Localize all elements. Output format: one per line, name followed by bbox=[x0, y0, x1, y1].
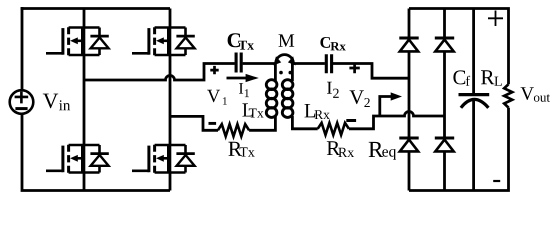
label LTx bbox=[242, 103, 263, 117]
inductor LRx bbox=[282, 80, 293, 118]
plus sign V2 bbox=[349, 63, 359, 73]
voltage source Vin bbox=[10, 7, 34, 114]
wire left leg lower segment bbox=[83, 173, 86, 191]
mutual coupling arc M bbox=[276, 55, 294, 63]
polarity dot LRx bbox=[289, 71, 293, 75]
wire right leg lower segment bbox=[169, 173, 172, 191]
label RRx bbox=[327, 141, 354, 157]
wire inverter top rail and left edge bbox=[22, 9, 170, 91]
diode D1 rectifier upper-left bbox=[399, 38, 418, 51]
plus sign V1 bbox=[210, 66, 218, 74]
transistor Q4 lower-right MOSFET with body diode bbox=[132, 145, 195, 173]
wire rectifier top rail and right edge upper bbox=[409, 9, 509, 85]
label I2 bbox=[327, 82, 339, 98]
wire right leg upper segment bbox=[169, 9, 172, 28]
label LRx bbox=[305, 104, 330, 119]
wire left leg middle segment bbox=[83, 55, 86, 145]
capacitor CRx bbox=[326, 54, 331, 73]
label Vout bbox=[521, 87, 550, 102]
label Cf bbox=[453, 70, 470, 85]
polarity dot LTx bbox=[279, 71, 283, 75]
label RL bbox=[481, 70, 502, 86]
mutual coupling arrowheads bbox=[273, 56, 295, 65]
minus sign V2 bbox=[346, 119, 356, 122]
wire rectifier right edge lower and bottom rail bbox=[409, 108, 509, 191]
wire LRx bottom to RRx bbox=[292, 116, 317, 129]
diode D2 rectifier upper-right bbox=[435, 38, 454, 51]
wire rectifier right diode leg bbox=[443, 9, 446, 191]
transistor Q1 upper-left MOSFET with body diode bbox=[46, 27, 109, 55]
minus sign output bbox=[493, 180, 500, 182]
wire Cf bottom lead bbox=[472, 101, 475, 191]
transistor Q2 upper-right MOSFET with body diode bbox=[132, 27, 195, 55]
resistor RRx bbox=[318, 123, 349, 135]
inductor LTx bbox=[266, 80, 277, 118]
resistor RL bbox=[504, 84, 512, 107]
label RTx bbox=[228, 142, 254, 157]
wire Cf top lead bbox=[472, 9, 475, 94]
wire bridge output lower to RTx bbox=[170, 116, 218, 130]
label Req bbox=[369, 142, 396, 160]
wire CRx to rectifier input bbox=[333, 64, 409, 79]
wire right leg middle segment bbox=[169, 55, 172, 145]
wire LRx top to CRx bbox=[292, 64, 325, 82]
label M bbox=[279, 34, 295, 46]
plus sign output bbox=[488, 11, 503, 27]
minus sign V1 bbox=[209, 122, 217, 125]
wire inverter left edge bottom and bottom rail bbox=[22, 114, 170, 191]
wire left leg upper segment bbox=[83, 9, 86, 28]
diode D3 rectifier lower-left bbox=[399, 138, 418, 151]
wire rectifier left diode leg bbox=[408, 9, 411, 191]
equivalent resistance arrow Req bbox=[380, 92, 402, 116]
label I1 bbox=[239, 83, 249, 97]
capacitor Cf bbox=[459, 95, 490, 108]
current arrow I1 bbox=[227, 74, 259, 82]
resistor RTx bbox=[218, 124, 249, 136]
diode D4 rectifier lower-right bbox=[435, 138, 454, 151]
label CRx bbox=[320, 37, 345, 50]
wire CTx to LTx top bbox=[243, 64, 276, 82]
capacitor CTx bbox=[236, 53, 241, 73]
label CTx bbox=[228, 33, 254, 49]
label V1 bbox=[207, 90, 227, 105]
wire RTx to LTx bottom bbox=[249, 116, 275, 130]
label Vin bbox=[43, 94, 70, 111]
transistor Q3 lower-left MOSFET with body diode bbox=[46, 145, 109, 173]
wire bridge output upper with hop over right leg bbox=[84, 64, 235, 81]
wire RRx to rectifier with hop over left diode leg bbox=[349, 112, 445, 129]
label V2 bbox=[350, 90, 370, 107]
